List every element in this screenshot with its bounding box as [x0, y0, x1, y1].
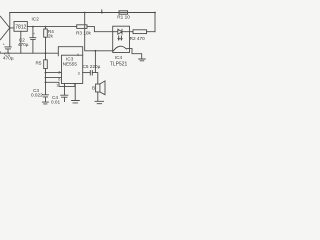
svg-text:4: 4: [77, 53, 79, 57]
resistor R3: [77, 25, 87, 29]
node A bridge output: [0, 13, 14, 40]
svg-text:+: +: [33, 32, 35, 36]
svg-text:IC2: IC2: [32, 16, 40, 21]
wire top rail: [10, 12, 155, 14]
LED arrows down: [118, 36, 122, 40]
wire opto emitter to ground: [132, 49, 142, 59]
wire ground rail: [0, 52, 58, 54]
junction C2: [32, 26, 34, 28]
svg-text:0.01: 0.01: [51, 99, 61, 104]
svg-text:4: 4: [0, 51, 1, 55]
LED inside opto: [113, 29, 130, 34]
wire R2 to opto: [130, 31, 156, 33]
wire stub above rail node: [101, 10, 103, 13]
svg-text:5: 5: [74, 83, 76, 87]
ground right: [139, 59, 146, 61]
optocoupler IC4 box: [113, 26, 130, 52]
junction rail node: [101, 12, 103, 14]
svg-text:C5 220µ: C5 220µ: [83, 64, 101, 69]
wire to pin6: [46, 77, 62, 79]
wire C5 to speaker: [92, 73, 98, 84]
capacitor C4: [61, 86, 68, 101]
svg-text:B: B: [92, 86, 95, 91]
wire to pin1: [46, 82, 76, 86]
wire pin3 out: [83, 72, 91, 74]
svg-text:R5: R5: [36, 61, 42, 66]
wire pin5 stub: [74, 84, 76, 101]
resistor R5: [44, 60, 48, 69]
resistor R2: [133, 30, 147, 34]
wire R4 to R5: [45, 37, 47, 60]
wire pin1 stub: [64, 84, 66, 87]
timer IC3 NE555: [62, 55, 83, 83]
junction wire A: [95, 50, 97, 52]
svg-text:2k: 2k: [48, 33, 54, 38]
wire 7812 ground stub: [20, 31, 22, 53]
svg-text:0.022: 0.022: [31, 93, 43, 98]
capacitor C5: [90, 70, 92, 75]
ground pin5: [72, 101, 80, 103]
junction pin1 wire: [45, 81, 47, 83]
junction pin6 stub: [45, 77, 47, 79]
junction R4: [45, 26, 47, 28]
voltage regulator IC2 7812: [14, 22, 27, 32]
ground under C3: [42, 102, 48, 104]
wire speaker to ground: [97, 92, 99, 101]
ground under speaker: [95, 101, 104, 103]
junction rail right: [154, 12, 156, 14]
capacitor C1: [5, 28, 12, 53]
svg-text:IC4: IC4: [115, 55, 123, 60]
svg-text:470µ: 470µ: [3, 55, 14, 60]
speaker B: [96, 84, 100, 92]
svg-text:3: 3: [78, 72, 80, 76]
svg-text:+: +: [3, 42, 5, 46]
resistor R4: [45, 27, 47, 29]
svg-text:6: 6: [58, 78, 60, 82]
svg-text:1: 1: [56, 84, 58, 88]
svg-text:R3 10k: R3 10k: [76, 31, 92, 36]
wire A ground to opto: [58, 47, 82, 56]
svg-text:7812: 7812: [15, 25, 26, 31]
capacitor C2: [30, 27, 36, 54]
svg-text:NE555: NE555: [63, 61, 78, 66]
wire +12V rail: [27, 27, 112, 32]
junction pin2 stub: [45, 72, 47, 74]
wire Vcc drop to 555: [85, 13, 113, 73]
svg-text:2: 2: [58, 71, 60, 75]
wire right edge drop: [154, 13, 156, 32]
svg-text:R2 470: R2 470: [130, 36, 146, 41]
capacitor C3: [42, 82, 48, 102]
svg-text:470µ: 470µ: [18, 42, 29, 47]
resistor R1: [119, 11, 128, 14]
phototransistor: [113, 46, 132, 51]
junction gnd rail R5: [45, 52, 47, 54]
wire to pin2: [46, 72, 62, 74]
svg-text:R1 10: R1 10: [117, 15, 130, 20]
svg-text:TLP521: TLP521: [110, 62, 128, 68]
junction rail Vcc: [84, 12, 86, 14]
junction C4: [64, 86, 66, 88]
wire timing node: [45, 69, 47, 83]
